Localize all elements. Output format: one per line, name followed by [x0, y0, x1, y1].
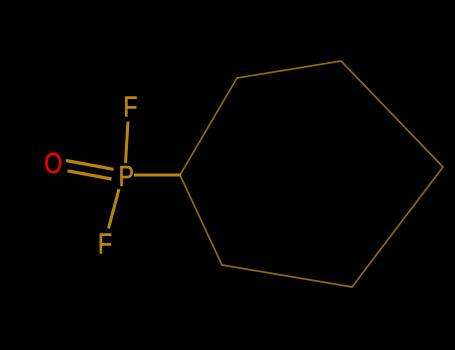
ring: cyclohexane C2-C3 bond (top edge) [237, 61, 341, 78]
ring: cyclohexane C3-C4 bond (top-right to right vertex) [341, 61, 443, 167]
double bond P=O lower line [68, 171, 112, 179]
double bond P=O upper line [66, 161, 114, 170]
ring: cyclohexane C1-C2 bond (left vertex to top-left) [180, 78, 237, 175]
ring: cyclohexane C4-C5 bond (right vertex to bottom-right) [352, 167, 443, 287]
svg-text:F: F [123, 90, 137, 123]
ring: cyclohexane C6-C1 bond (bottom-left to left vertex) [180, 175, 222, 265]
bond P-F bottom [109, 189, 120, 229]
bond P-C1 (P to ring) [134, 174, 181, 177]
svg-text:P: P [118, 159, 133, 192]
ring: cyclohexane C5-C6 bond (bottom edge) [222, 265, 352, 287]
svg-text:F: F [98, 227, 112, 260]
bond P-F top [126, 122, 129, 164]
svg-text:O: O [44, 147, 62, 180]
